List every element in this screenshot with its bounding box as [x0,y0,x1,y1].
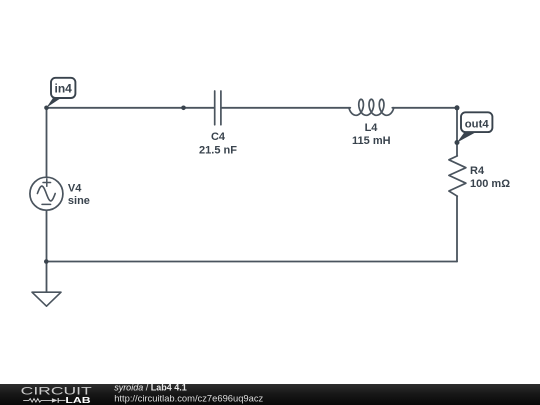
svg-text:C4: C4 [211,131,226,143]
svg-text:http://circuitlab.com/cz7e696u: http://circuitlab.com/cz7e696uq9acz [114,392,263,403]
svg-text:L4: L4 [365,122,379,134]
svg-text:out4: out4 [465,119,490,131]
svg-text:100 mΩ: 100 mΩ [470,178,510,190]
svg-text:syroida / Lab4 4.1: syroida / Lab4 4.1 [114,383,187,393]
svg-text:V4: V4 [68,182,82,194]
svg-text:R4: R4 [470,165,485,177]
svg-text:21.5 nF: 21.5 nF [199,144,237,156]
svg-text:in4: in4 [55,82,73,96]
svg-text:115 mH: 115 mH [352,135,391,147]
svg-text:LAB: LAB [65,395,90,405]
svg-text:sine: sine [68,195,90,207]
